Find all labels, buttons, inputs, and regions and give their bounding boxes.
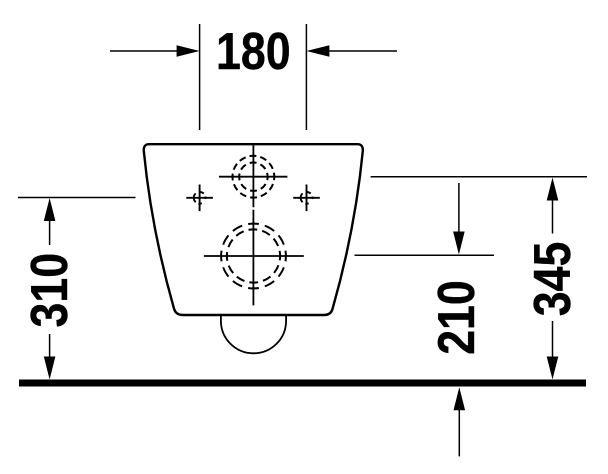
dim 210 mid extension line bbox=[355, 254, 495, 256]
inlet inner dashed circle bbox=[239, 163, 267, 191]
dim 180 extension line right bbox=[305, 24, 307, 130]
right mounting hole crosshair bbox=[293, 185, 320, 212]
inlet crosshair horizontal bbox=[219, 176, 287, 178]
dim 210 lower arrow below floor pointing up bbox=[454, 387, 466, 456]
drain crosshair horizontal bbox=[204, 255, 304, 257]
drain inner dashed circle bbox=[227, 229, 280, 282]
dim 180 right arrow bbox=[306, 45, 397, 57]
dim 345 down arrow at floor bbox=[547, 321, 559, 380]
dim 345 top extension line bbox=[371, 176, 587, 178]
svg-text:310: 310 bbox=[21, 253, 79, 328]
dim 180 extension line left bbox=[199, 24, 201, 130]
svg-text:180: 180 bbox=[216, 23, 291, 81]
dim 180 left arrow bbox=[110, 45, 200, 57]
vertical centerline bbox=[252, 145, 254, 305]
svg-text:345: 345 bbox=[524, 242, 582, 317]
dim 310 dimension line lower segment with down arrow bbox=[44, 334, 56, 380]
drain outlet protrusion bbox=[221, 315, 286, 353]
dim 310 extension line bbox=[18, 197, 136, 199]
svg-text:210: 210 bbox=[428, 280, 486, 355]
dim 210 upper arrow pointing down bbox=[453, 183, 465, 255]
inlet outer dashed circle bbox=[233, 156, 275, 198]
drain outer dashed circle bbox=[221, 224, 286, 289]
dim 345 up arrow at top line bbox=[547, 178, 559, 234]
left mounting hole crosshair bbox=[186, 185, 213, 212]
dim 310 dimension line upper segment with up arrow bbox=[44, 198, 56, 245]
toilet body outline bbox=[144, 144, 363, 315]
floor line bbox=[19, 380, 586, 387]
